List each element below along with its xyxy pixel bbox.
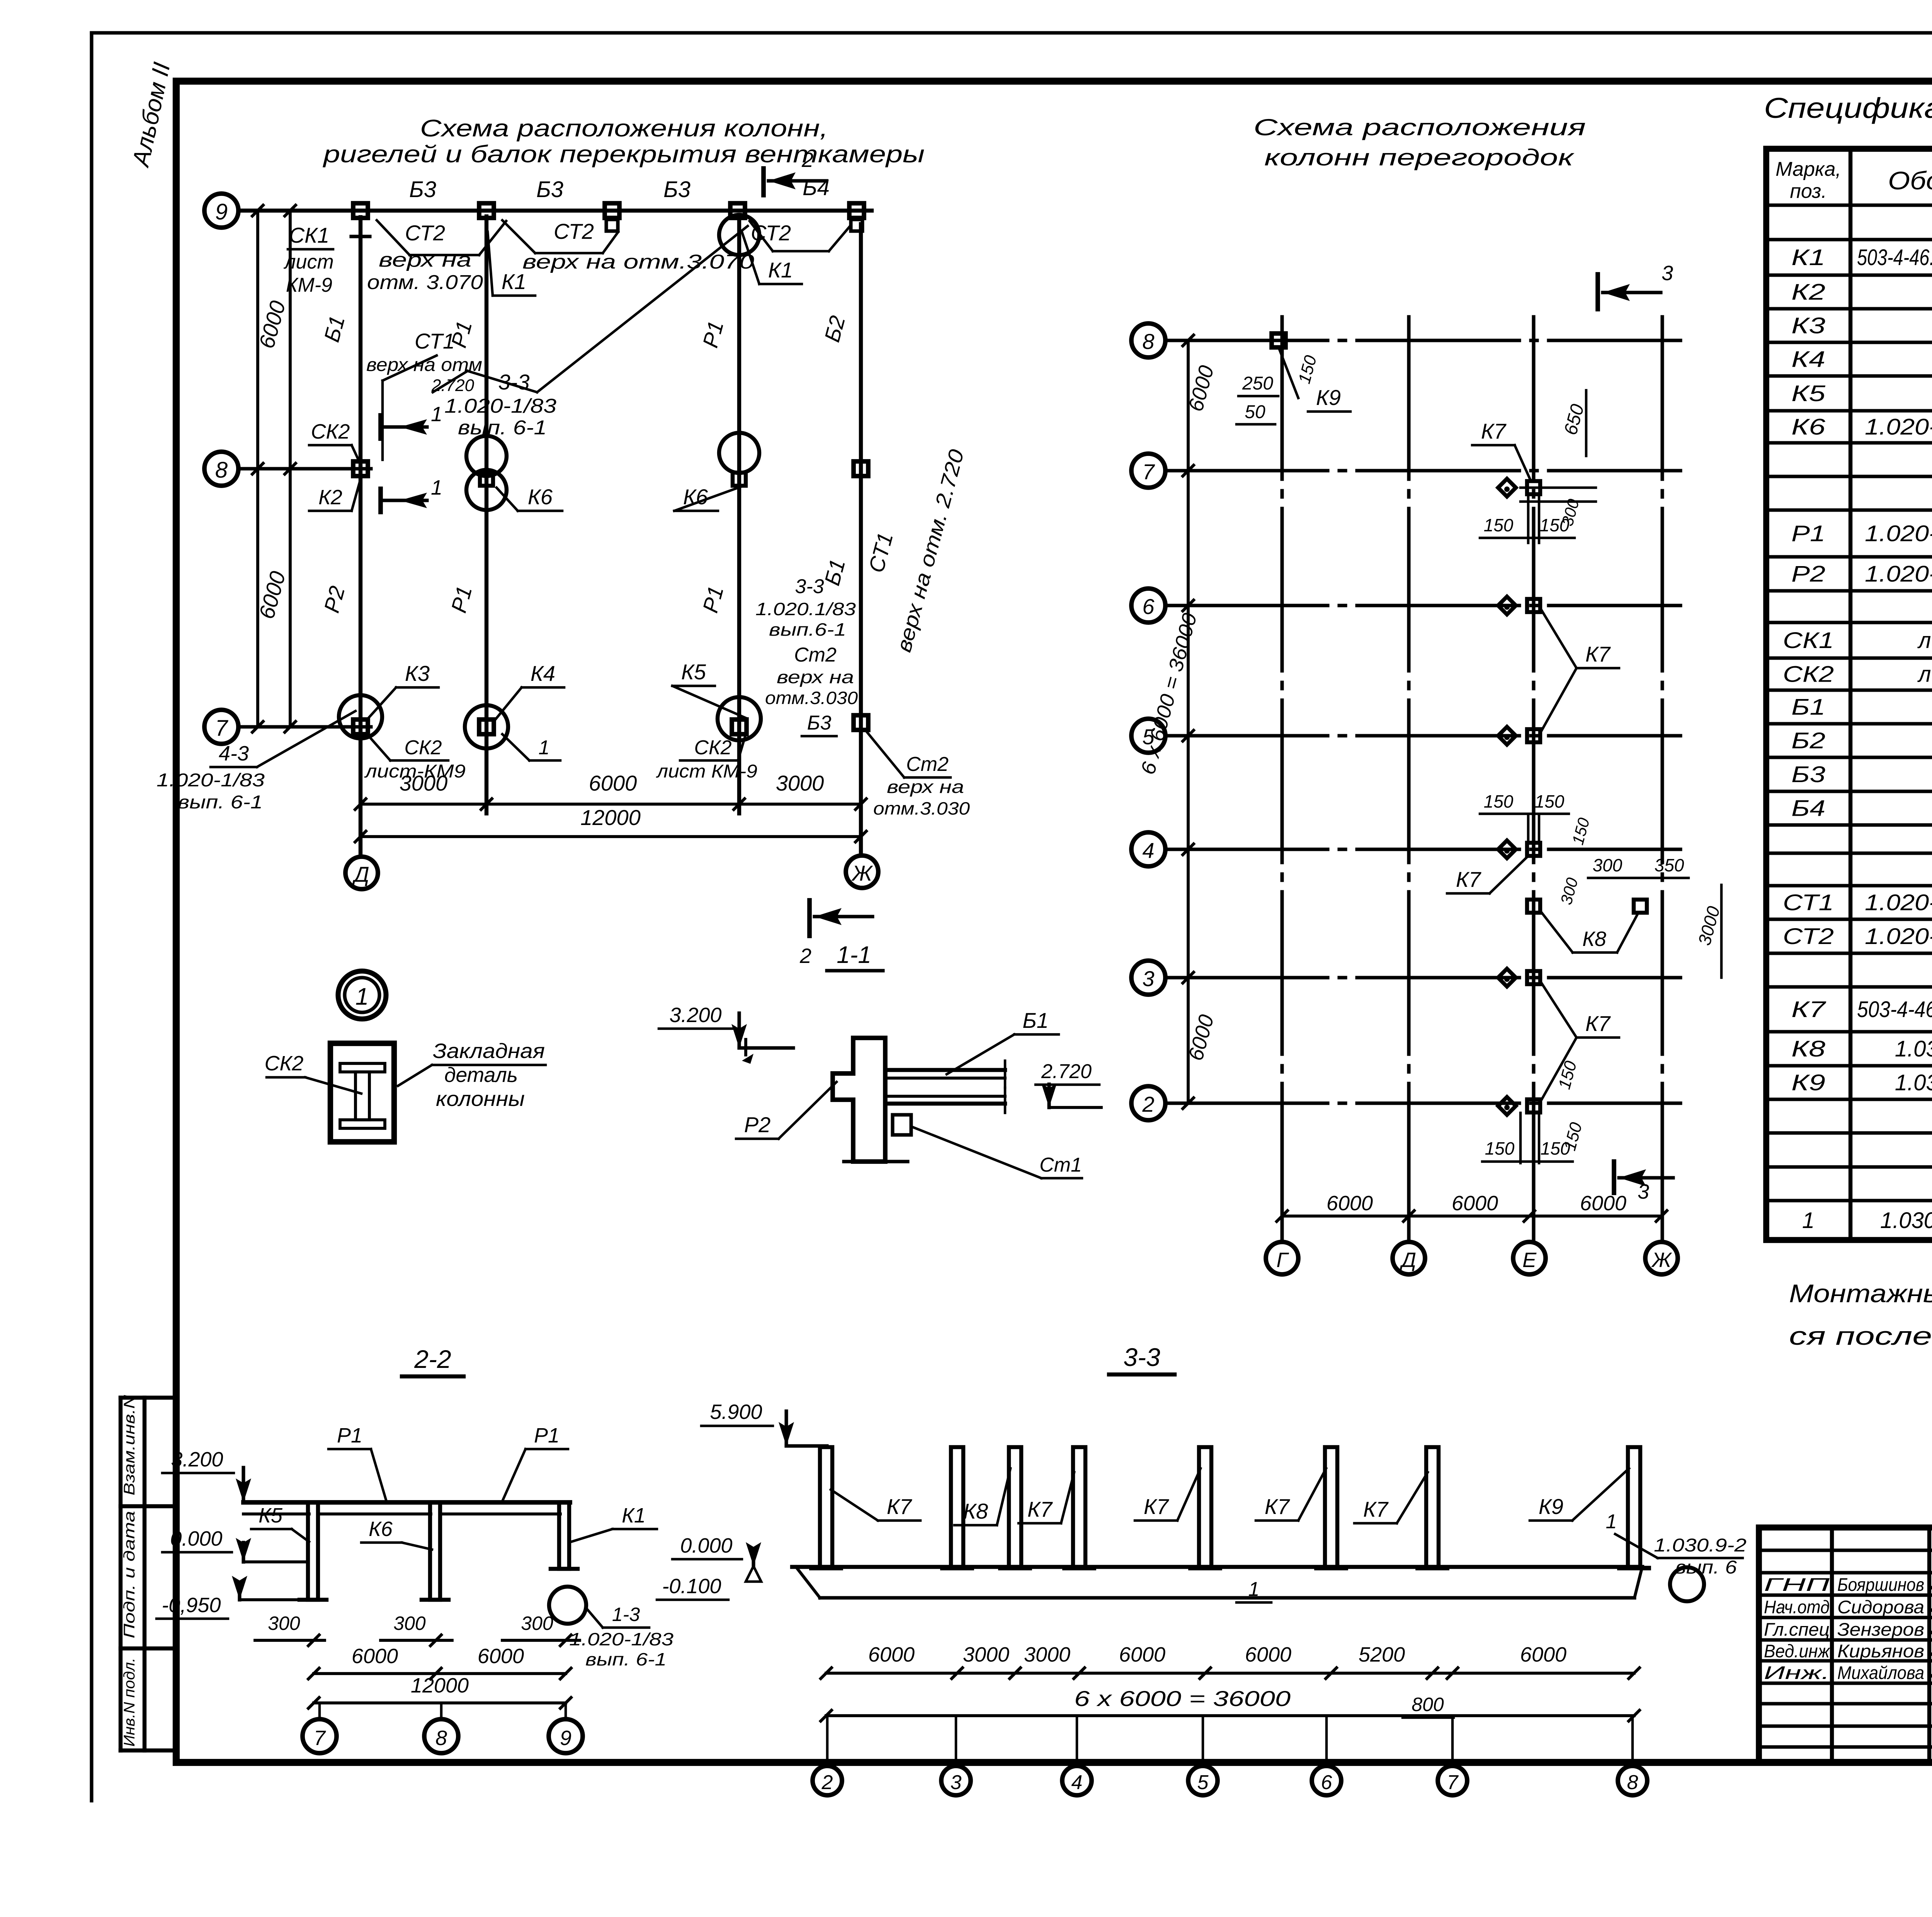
svg-text:Закладная: Закладная xyxy=(433,1039,545,1063)
svg-text:1: 1 xyxy=(1248,1578,1260,1601)
svg-text:Инв.N подл.: Инв.N подл. xyxy=(121,1658,138,1747)
svg-text:верх на: верх на xyxy=(777,667,854,687)
svg-text:СК2: СК2 xyxy=(404,737,442,759)
svg-text:12000: 12000 xyxy=(580,805,641,830)
section 2-2 callout 1-3 xyxy=(549,1587,674,1669)
svg-text:Д: Д xyxy=(1400,1249,1416,1272)
plan2 vertical axes xyxy=(1282,317,1662,1241)
svg-text:1: 1 xyxy=(431,476,442,499)
svg-text:Марка,: Марка, xyxy=(1776,158,1841,180)
svg-text:вып. 6-1: вып. 6-1 xyxy=(178,792,263,813)
svg-text:1: 1 xyxy=(355,983,369,1010)
plan2 title xyxy=(1253,114,1586,170)
svg-text:К5: К5 xyxy=(259,1504,283,1527)
plan2 section marks 3 xyxy=(1598,262,1673,1203)
svg-text:12000: 12000 xyxy=(411,1674,469,1697)
svg-text:отм.3.030: отм.3.030 xyxy=(873,798,970,818)
plan1 CT2 right-bottom callout xyxy=(866,730,970,818)
svg-text:Б2: Б2 xyxy=(1791,728,1825,754)
section 3-3 columns xyxy=(811,1447,1649,1568)
plan2 bottom dimensions xyxy=(1277,1192,1667,1221)
svg-text:0.000: 0.000 xyxy=(170,1527,222,1550)
svg-text:Б4: Б4 xyxy=(1791,796,1825,821)
svg-text:-0.100: -0.100 xyxy=(662,1575,721,1598)
svg-text:7: 7 xyxy=(314,1726,326,1750)
svg-text:0.000: 0.000 xyxy=(680,1534,732,1557)
section 2-2 axis circles xyxy=(303,1703,583,1753)
svg-text:8: 8 xyxy=(215,458,228,483)
svg-text:3: 3 xyxy=(951,1771,962,1794)
plan1 axis circle D xyxy=(345,857,378,889)
svg-text:Схема расположения колонн,: Схема расположения колонн, xyxy=(420,115,828,142)
svg-text:СК2: СК2 xyxy=(265,1052,304,1075)
detail 1-1 xyxy=(659,942,1101,1178)
svg-text:300: 300 xyxy=(1593,855,1622,875)
svg-text:3.200: 3.200 xyxy=(669,1004,721,1027)
svg-text:ся после выверки колонн: ся после выверки колонн. xyxy=(1789,1322,1932,1350)
plan1 4-3 callout xyxy=(156,711,355,813)
svg-text:К5: К5 xyxy=(681,660,706,684)
svg-text:Сидорова: Сидорова xyxy=(1837,1597,1924,1617)
plan2 K8 columns xyxy=(1527,900,1647,953)
mounting welds note xyxy=(1789,1279,1932,1350)
section 2-2 levels xyxy=(156,1527,305,1619)
plan1 K3 K4 K5 labels xyxy=(367,660,746,720)
plan1 axis circle Zh xyxy=(846,856,878,888)
svg-text:Р1: Р1 xyxy=(1791,521,1825,546)
svg-text:Р1: Р1 xyxy=(337,1424,362,1447)
svg-text:150: 150 xyxy=(1541,1138,1570,1158)
svg-text:5.900: 5.900 xyxy=(710,1400,762,1424)
svg-text:СК2: СК2 xyxy=(694,737,731,759)
svg-text:Монтажные швы приняты hшв =: Монтажные швы приняты hшв = 6мм, и выпол… xyxy=(1789,1279,1932,1308)
section 2-2 dimensions xyxy=(255,1613,580,1708)
svg-text:К7: К7 xyxy=(1585,642,1611,666)
section 3-3 column labels xyxy=(831,1468,1629,1525)
svg-text:вып. 6-1: вып. 6-1 xyxy=(585,1649,667,1669)
svg-text:1.020-1/83: 1.020-1/83 xyxy=(444,395,556,417)
svg-text:К1: К1 xyxy=(622,1504,646,1527)
svg-text:1.020-1/83: 1.020-1/83 xyxy=(569,1629,674,1649)
svg-text:К4: К4 xyxy=(1791,347,1825,372)
svg-text:Б3: Б3 xyxy=(536,177,563,202)
spec table rows xyxy=(1783,209,1932,1233)
svg-text:Б3: Б3 xyxy=(807,712,832,734)
svg-text:К6: К6 xyxy=(369,1517,393,1541)
plan2 K7 labels xyxy=(1447,419,1619,1099)
svg-text:2: 2 xyxy=(799,944,811,968)
plan1 3-3 lower and CT2 callout xyxy=(755,575,858,736)
main drawing frame xyxy=(176,81,1932,1762)
plan1 axis circle 7 xyxy=(204,710,238,744)
plan1 top support squares xyxy=(353,203,864,231)
svg-text:4: 4 xyxy=(1071,1771,1083,1794)
svg-text:лист: лист xyxy=(283,251,334,273)
svg-text:СТ2: СТ2 xyxy=(751,221,791,245)
svg-text:К6: К6 xyxy=(1791,415,1826,440)
section 2-2 columns xyxy=(299,1502,578,1600)
svg-text:Ст1: Ст1 xyxy=(1039,1154,1082,1176)
svg-text:1: 1 xyxy=(1606,1510,1617,1533)
svg-text:К7: К7 xyxy=(1363,1497,1389,1521)
svg-text:6: 6 xyxy=(1321,1771,1332,1794)
svg-text:К7: К7 xyxy=(1585,1011,1611,1036)
svg-text:К7: К7 xyxy=(1144,1494,1169,1519)
plan2 left dimension line xyxy=(1137,335,1218,1109)
svg-text:1.030-9.2 вып.5: 1.030-9.2 вып.5 xyxy=(1895,1036,1932,1061)
plan1 column line D xyxy=(359,217,362,857)
svg-text:Ж: Ж xyxy=(851,861,873,885)
svg-text:К9: К9 xyxy=(1316,385,1341,410)
svg-text:503-4-46.87-КЖН-КБ8-1-1: 503-4-46.87-КЖН-КБ8-1-1 xyxy=(1857,997,1932,1022)
svg-text:5: 5 xyxy=(1197,1771,1209,1794)
svg-text:верх на: верх на xyxy=(887,777,964,797)
svg-text:2: 2 xyxy=(801,148,813,172)
plan1 bottom dimensions xyxy=(355,771,866,842)
svg-text:6000: 6000 xyxy=(1520,1643,1566,1666)
svg-text:Е: Е xyxy=(1522,1249,1537,1272)
section 3-3 ground and footing lines xyxy=(792,1567,1642,1598)
svg-text:3-3: 3-3 xyxy=(795,575,824,598)
svg-text:Бояршинов: Бояршинов xyxy=(1837,1574,1924,1595)
plan1 3-3 callout upper xyxy=(433,226,748,439)
svg-text:СТ2: СТ2 xyxy=(405,221,445,245)
svg-text:1.030.9-2: 1.030.9-2 xyxy=(1654,1535,1747,1556)
svg-text:ГНП: ГНП xyxy=(1764,1574,1830,1595)
svg-text:Зензеров: Зензеров xyxy=(1837,1619,1924,1640)
svg-text:Схема расположения: Схема расположения xyxy=(1253,114,1586,140)
plan1 top callout texts xyxy=(283,219,802,296)
svg-text:7: 7 xyxy=(215,716,229,741)
svg-text:СК2: СК2 xyxy=(311,420,350,443)
plan1 axis circle 8 xyxy=(204,452,238,486)
svg-text:К2: К2 xyxy=(318,486,342,509)
svg-text:колонн перегородок: колонн перегородок xyxy=(1264,145,1575,170)
svg-text:1.020-1/83 вып.3-1: 1.020-1/83 вып.3-1 xyxy=(1865,561,1932,587)
svg-text:Б1: Б1 xyxy=(1022,1008,1049,1032)
svg-text:СТ1: СТ1 xyxy=(1783,890,1834,915)
svg-text:250: 250 xyxy=(1242,373,1273,394)
svg-text:1-3: 1-3 xyxy=(612,1604,640,1625)
svg-text:Ст2: Ст2 xyxy=(794,644,837,666)
svg-text:7: 7 xyxy=(1447,1771,1459,1794)
svg-text:К7: К7 xyxy=(1027,1497,1053,1521)
svg-text:8: 8 xyxy=(1142,329,1154,354)
svg-text:Кирьянов: Кирьянов xyxy=(1837,1641,1924,1661)
svg-text:Б3: Б3 xyxy=(1791,762,1825,787)
svg-text:К9: К9 xyxy=(1791,1070,1825,1095)
svg-text:3000: 3000 xyxy=(1024,1643,1070,1666)
plan2 dims at axis2 xyxy=(1482,1059,1586,1163)
svg-text:Подп. и дата: Подп. и дата xyxy=(121,1511,138,1638)
svg-text:К8: К8 xyxy=(1791,1036,1825,1061)
section 3-3 top level xyxy=(701,1400,827,1446)
svg-text:КМ-9: КМ-9 xyxy=(286,274,332,296)
plan1 CT1 CK2 K2 callouts xyxy=(309,329,482,511)
svg-text:1.030.9-2.7-2030.0: 1.030.9-2.7-2030.0 xyxy=(1880,1208,1932,1233)
svg-text:К8: К8 xyxy=(963,1499,988,1523)
svg-text:1: 1 xyxy=(539,737,550,759)
plan1 callout rings xyxy=(339,215,761,748)
plan1 rotated member labels xyxy=(319,313,969,655)
plan1 axis 9 line xyxy=(238,209,872,213)
svg-text:отм. 3.070: отм. 3.070 xyxy=(367,271,483,294)
plan2 dims at axis7 xyxy=(1480,390,1596,543)
svg-text:3000: 3000 xyxy=(963,1643,1009,1666)
svg-text:К7: К7 xyxy=(887,1494,912,1519)
svg-text:3000: 3000 xyxy=(776,771,824,795)
section 3-3 axis circles xyxy=(813,1716,1647,1795)
svg-text:Д: Д xyxy=(352,862,369,886)
svg-text:2: 2 xyxy=(821,1771,833,1794)
svg-text:Г: Г xyxy=(1276,1249,1289,1272)
svg-text:2: 2 xyxy=(1142,1092,1154,1116)
svg-text:К1: К1 xyxy=(768,258,793,282)
svg-text:6000: 6000 xyxy=(1580,1192,1626,1215)
svg-text:6000: 6000 xyxy=(1119,1643,1165,1666)
section 3-3 label xyxy=(1109,1343,1175,1374)
svg-text:1.030-9.2 вып.5: 1.030-9.2 вып.5 xyxy=(1895,1070,1932,1095)
plan2 K7 columns with anchors xyxy=(1498,479,1540,1115)
svg-text:Б3: Б3 xyxy=(409,177,436,202)
plan2 horizontal axes xyxy=(1165,340,1680,1103)
plan1 column line Zh xyxy=(859,224,863,856)
svg-text:1.020-1/83 вып.3-1: 1.020-1/83 вып.3-1 xyxy=(1865,521,1932,546)
svg-text:К7: К7 xyxy=(1265,1494,1290,1519)
plan1 detail circle 1 xyxy=(338,971,386,1019)
svg-text:6000: 6000 xyxy=(589,771,637,795)
plan1 CK2 bottom labels xyxy=(364,734,757,782)
svg-text:К8: К8 xyxy=(1582,927,1606,951)
svg-text:К6: К6 xyxy=(528,485,553,509)
svg-text:верх на отм.3.070: верх на отм.3.070 xyxy=(522,251,754,273)
svg-text:6000: 6000 xyxy=(352,1645,398,1668)
svg-text:1-1: 1-1 xyxy=(837,942,871,968)
plan1 title xyxy=(322,115,925,168)
left margin stamp strip xyxy=(121,1395,176,1750)
svg-text:3: 3 xyxy=(1662,262,1673,285)
svg-text:Ж: Ж xyxy=(1651,1249,1672,1272)
svg-text:СК2: СК2 xyxy=(1783,662,1834,687)
svg-text:8: 8 xyxy=(435,1726,447,1750)
svg-text:3: 3 xyxy=(1638,1180,1649,1203)
svg-text:3-3: 3-3 xyxy=(1123,1343,1160,1371)
svg-text:отм.3.030: отм.3.030 xyxy=(765,688,858,708)
svg-text:К1: К1 xyxy=(502,269,526,294)
svg-text:СТ2: СТ2 xyxy=(554,219,594,243)
svg-text:8: 8 xyxy=(1627,1771,1638,1794)
svg-text:Б4: Б4 xyxy=(803,175,830,200)
svg-text:1.020.1/83: 1.020.1/83 xyxy=(755,599,856,619)
svg-text:4: 4 xyxy=(1142,838,1154,862)
svg-text:Ст2: Ст2 xyxy=(906,753,949,776)
svg-text:К2: К2 xyxy=(1791,280,1825,305)
svg-text:деталь: деталь xyxy=(444,1063,518,1087)
title block signatures xyxy=(1764,1574,1932,1683)
svg-text:6000: 6000 xyxy=(1452,1192,1498,1215)
svg-text:Б3: Б3 xyxy=(663,177,690,202)
section 2-2 beam xyxy=(162,1448,570,1514)
svg-text:150: 150 xyxy=(1484,791,1514,811)
svg-text:6000: 6000 xyxy=(1327,1192,1373,1215)
Album II rotated margin note xyxy=(127,60,175,170)
svg-text:1.020-1/83 вып.2-1: 1.020-1/83 вып.2-1 xyxy=(1865,415,1932,440)
svg-text:6000: 6000 xyxy=(478,1645,524,1668)
plan1 beam labels B3 B3 B3 B4 xyxy=(409,175,830,202)
CK2 embedded-plate detail xyxy=(265,1039,546,1142)
svg-text:вып.6-1: вып.6-1 xyxy=(769,619,846,640)
svg-text:300: 300 xyxy=(268,1613,300,1634)
section 3-3 callouts xyxy=(1236,1510,1747,1602)
svg-text:верх на: верх на xyxy=(379,249,471,271)
plan1 axis circle 9 xyxy=(204,194,238,228)
svg-text:350: 350 xyxy=(1655,855,1684,875)
plan2 axis circles 8-2 xyxy=(1131,323,1165,1120)
svg-text:К7: К7 xyxy=(1791,997,1827,1022)
svg-text:К7: К7 xyxy=(1481,419,1507,443)
svg-text:7: 7 xyxy=(1142,459,1155,484)
svg-text:1: 1 xyxy=(431,403,442,426)
svg-text:СК1: СК1 xyxy=(289,223,330,247)
svg-text:Спецификация к схемам располож: Спецификация к схемам расположения колон… xyxy=(1764,92,1932,124)
svg-text:Нач.отд: Нач.отд xyxy=(1764,1597,1830,1617)
svg-text:Б1: Б1 xyxy=(1791,695,1825,720)
svg-text:Р2: Р2 xyxy=(744,1112,771,1137)
plan1 axis 7 line xyxy=(238,725,371,728)
svg-text:6 х 6000 = 36000: 6 х 6000 = 36000 xyxy=(1074,1686,1291,1711)
svg-text:вып. 6-1: вып. 6-1 xyxy=(458,417,547,439)
svg-text:лист КМ-9: лист КМ-9 xyxy=(1917,662,1932,687)
svg-text:Гл.спец: Гл.спец xyxy=(1764,1619,1830,1640)
plan1 mid and bottom squares xyxy=(353,461,868,734)
svg-text:300: 300 xyxy=(521,1613,553,1634)
svg-text:2.720: 2.720 xyxy=(1041,1060,1092,1083)
svg-text:К3: К3 xyxy=(1791,313,1825,338)
section 3-3 levels xyxy=(657,1534,761,1600)
svg-text:колонны: колонны xyxy=(436,1087,525,1111)
svg-text:1: 1 xyxy=(1802,1208,1815,1233)
svg-text:лист КМ-9: лист КМ-9 xyxy=(656,761,757,782)
svg-text:Михайлова: Михайлова xyxy=(1837,1662,1924,1683)
svg-text:СТ2: СТ2 xyxy=(1783,924,1834,949)
spec table grid and header xyxy=(1764,92,1932,1240)
svg-text:Р1: Р1 xyxy=(534,1424,560,1447)
svg-text:1.020-1/83: 1.020-1/83 xyxy=(156,770,265,791)
svg-text:ригелей и балок перекрытия: ригелей и балок перекрытия венткамеры xyxy=(322,141,925,168)
plan1 K6 labels xyxy=(497,485,746,511)
plan2 K9 column and dims xyxy=(1236,333,1350,424)
svg-text:Вед.инж: Вед.инж xyxy=(1764,1641,1831,1661)
plan1 axis 8 line xyxy=(238,467,371,470)
plan1 section marks 2 xyxy=(764,148,872,968)
svg-text:150: 150 xyxy=(1484,515,1514,535)
title block grid xyxy=(1759,1527,1932,1762)
svg-text:К5: К5 xyxy=(1791,381,1826,406)
svg-text:6000: 6000 xyxy=(1245,1643,1291,1666)
plan1 section marks 1-1 xyxy=(381,403,442,512)
plan2 axis circles G-Zh xyxy=(1266,1242,1678,1274)
svg-text:503-4-46.87-КЖН-1КО3.33-1: 503-4-46.87-КЖН-1КО3.33-1 xyxy=(1857,245,1932,270)
svg-text:Обозначение: Обозначение xyxy=(1888,166,1932,195)
plan1 column line 2 xyxy=(485,216,488,813)
plan1 column line 3 xyxy=(737,216,741,813)
svg-text:300: 300 xyxy=(393,1613,426,1634)
svg-text:6: 6 xyxy=(1142,594,1155,619)
section 2-2 label xyxy=(402,1345,464,1376)
svg-text:лист КМ-9: лист КМ-9 xyxy=(1917,628,1932,653)
svg-text:СК1: СК1 xyxy=(1783,628,1834,653)
svg-text:150: 150 xyxy=(1485,1138,1515,1158)
svg-text:9: 9 xyxy=(215,199,228,225)
plan2 dims at axis4 xyxy=(1480,791,1724,978)
plan1 CT2 leader lines xyxy=(377,220,850,255)
svg-text:3: 3 xyxy=(1142,966,1154,991)
plan1 left dimension 6000x2 xyxy=(252,205,296,732)
svg-text:К3: К3 xyxy=(405,661,430,685)
svg-text:К9: К9 xyxy=(1539,1494,1563,1519)
section 2-2 member labels xyxy=(251,1424,657,1550)
svg-text:К1: К1 xyxy=(1791,245,1825,270)
svg-text:3.200: 3.200 xyxy=(171,1448,223,1471)
svg-text:50: 50 xyxy=(1245,402,1265,422)
svg-text:4-3: 4-3 xyxy=(219,742,249,765)
svg-text:Взам.инв.N: Взам.инв.N xyxy=(121,1395,138,1495)
section 3-3 dimensions xyxy=(821,1643,1639,1721)
svg-text:К7: К7 xyxy=(1456,867,1481,891)
svg-text:1.020-1/83 вып.7-1: 1.020-1/83 вып.7-1 xyxy=(1865,924,1932,949)
svg-text:6000: 6000 xyxy=(868,1643,915,1666)
svg-text:Инж.: Инж. xyxy=(1764,1662,1830,1683)
svg-text:800: 800 xyxy=(1412,1694,1444,1715)
svg-text:К4: К4 xyxy=(531,661,555,685)
svg-text:1.020-1/83 вып.7-1: 1.020-1/83 вып.7-1 xyxy=(1865,890,1932,915)
svg-text:3000: 3000 xyxy=(400,771,448,795)
svg-text:5200: 5200 xyxy=(1359,1643,1405,1666)
svg-text:поз.: поз. xyxy=(1790,180,1827,202)
svg-text:9: 9 xyxy=(560,1726,571,1750)
svg-text:-0,950: -0,950 xyxy=(162,1594,221,1617)
svg-text:2-2: 2-2 xyxy=(414,1345,451,1373)
svg-text:150: 150 xyxy=(1535,791,1565,811)
plan1 CK1 tiny symbol xyxy=(351,226,370,250)
svg-text:Р2: Р2 xyxy=(1791,561,1825,587)
